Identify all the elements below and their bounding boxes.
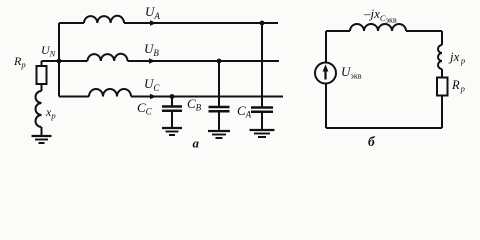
node: junction A-line to C_A drop: [260, 21, 265, 26]
arrow inside source: [324, 70, 326, 80]
inductor: phase B coil: [88, 54, 128, 61]
svg-text:Rр: Rр: [451, 78, 465, 94]
svg-text:UA: UA: [145, 4, 160, 21]
wire: C_B to ground: [218, 111, 220, 131]
wire: phase C line left segment: [59, 96, 89, 98]
wire: right side below resistor: [441, 96, 443, 129]
ground (below C_C): [162, 128, 182, 135]
arrow: U_A direction: [150, 20, 157, 26]
inductor: phase C coil: [89, 89, 131, 96]
svg-text:CB: CB: [187, 96, 202, 113]
source U_экв (circle): [315, 63, 336, 84]
wire: drop from phase B to capacitor C_B: [218, 61, 220, 107]
arrow: U_B direction: [149, 58, 156, 64]
wire: phase A line left segment: [59, 22, 84, 24]
capacitor C_B: [209, 107, 230, 111]
ground (below C_A): [250, 130, 275, 137]
svg-text:б: б: [368, 134, 376, 149]
svg-text:UN: UN: [41, 43, 57, 59]
wire: phase C line right segment: [131, 96, 283, 98]
wire: top-left of equivalent loop (circuit b): [326, 30, 350, 32]
inductor -jx_Cэкв (top coil, circuit b): [350, 24, 406, 31]
wire: C_C to ground: [171, 111, 173, 128]
wire: right side between coil and resistor: [441, 69, 443, 78]
resistor Rp (circuit a): [37, 66, 47, 84]
node: junction B-line to C_B drop: [217, 59, 222, 64]
wire: resistor Rp to coil x_p: [41, 84, 43, 91]
svg-text:CС: CС: [137, 100, 153, 117]
ground (below C_B): [208, 131, 230, 138]
wire: left side below source: [325, 84, 327, 129]
wire: coil x_p to ground: [41, 127, 43, 136]
svg-text:Uэкв: Uэкв: [341, 64, 362, 81]
svg-text:UC: UC: [144, 76, 160, 93]
wire: drop from phase A to capacitor C_A: [261, 23, 263, 108]
capacitor C_C: [162, 107, 182, 111]
resistor Rp (circuit b): [437, 78, 448, 96]
wire: top-right of loop (circuit b): [406, 30, 442, 32]
arrow: U_C direction: [150, 94, 157, 100]
ground (below x_p): [32, 136, 52, 143]
wire: phase B line left segment: [42, 60, 88, 62]
wire: drop from phase C to capacitor C_C: [171, 97, 173, 107]
svg-text:–jxCэкв: –jxCэкв: [363, 6, 397, 25]
node: junction C-line to C_C drop: [170, 94, 175, 99]
wire: C_A to ground: [261, 112, 263, 130]
svg-text:а: а: [193, 136, 200, 151]
wire: left side above source: [325, 31, 327, 63]
inductor x_p (vertical coil): [36, 91, 42, 127]
capacitor C_A: [251, 108, 273, 112]
wire: stub from B line down to resistor Rp: [41, 61, 43, 66]
node: junction neutral bus and B line (U_N): [57, 59, 62, 64]
inductor: phase A coil: [84, 16, 124, 23]
svg-text:jxр: jxр: [448, 49, 465, 66]
wire: left neutral bus (circuit a): [58, 23, 60, 97]
svg-text:Rр: Rр: [13, 54, 26, 70]
svg-text:UB: UB: [144, 41, 159, 58]
wire: bottom of loop (circuit b): [326, 127, 442, 129]
svg-text:xр: xр: [45, 105, 56, 121]
svg-text:CA: CA: [237, 103, 252, 120]
wire: phase B line right segment: [128, 60, 280, 62]
wire: right side top segment: [441, 31, 443, 45]
wire: phase A line right segment: [124, 22, 278, 24]
inductor jx_p (right coil, circuit b): [438, 45, 442, 69]
